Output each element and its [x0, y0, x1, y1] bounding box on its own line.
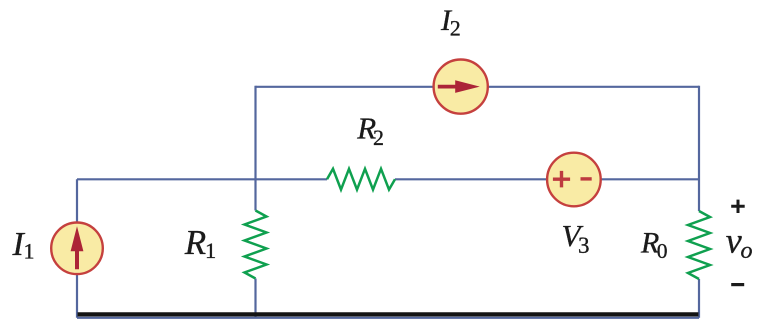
current source I2 circle — [434, 60, 488, 114]
svg-text:1: 1 — [24, 239, 35, 264]
svg-text:2: 2 — [373, 125, 384, 150]
wire: middle horizontal right of R2 — [395, 178, 699, 180]
wire: left vertical — [76, 179, 78, 317]
wire: right vertical lower segment — [698, 279, 700, 318]
svg-text:R: R — [184, 223, 206, 262]
resistor R0 — [688, 211, 710, 279]
svg-text:o: o — [741, 238, 753, 264]
wire: junction vertical upper segment — [254, 86, 256, 211]
voltage source V3 minus sign — [581, 177, 592, 180]
resistor R1 — [245, 211, 267, 279]
voltage source V3 circle — [547, 153, 601, 207]
label output plus — [731, 200, 745, 213]
resistor R2 — [327, 169, 395, 190]
wire: bottom thick black bus — [78, 312, 699, 316]
wire: junction vertical lower segment — [254, 279, 256, 318]
label output minus — [731, 283, 744, 286]
wire: top horizontal from junction to right — [256, 86, 700, 88]
svg-text:v: v — [726, 221, 742, 261]
svg-text:2: 2 — [450, 16, 461, 41]
wire: right vertical upper segment — [698, 86, 700, 211]
svg-text:1: 1 — [205, 238, 216, 263]
svg-text:0: 0 — [657, 239, 668, 263]
voltage source V3 plus sign — [553, 171, 570, 188]
wire: bottom blue line — [77, 317, 699, 319]
current source I1 circle — [51, 223, 103, 275]
wire: middle horizontal left of R2 — [77, 178, 327, 180]
svg-text:3: 3 — [578, 233, 590, 258]
current source I1 arrow (up) — [71, 226, 84, 269]
current source I2 arrow (right) — [438, 80, 480, 93]
